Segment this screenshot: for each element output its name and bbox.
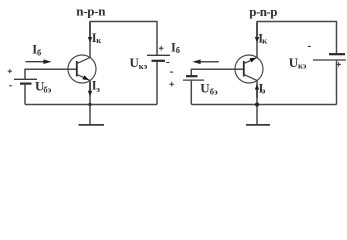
svg-text:n-p-n: n-p-n	[76, 4, 106, 19]
label Iк (left)	[92, 31, 101, 45]
ground (left) stub	[89, 105, 91, 125]
ground (right) bar	[246, 124, 270, 126]
arrow Iб (right, left-pointing)	[192, 60, 218, 65]
label - (right battery U_бэ)	[170, 71, 173, 73]
wire: right emitter vertical	[256, 81, 258, 105]
wire: left battery branch upper	[24, 69, 26, 79]
label Iк (right)	[258, 31, 267, 45]
wire: right top rail	[257, 21, 337, 23]
transistor Q1 (n-p-n)	[68, 55, 96, 83]
wire: right base wire	[191, 68, 243, 70]
label - (left battery U_бэ)	[9, 85, 12, 87]
svg-text:к: к	[262, 36, 267, 46]
arrow Iк (left, down)	[88, 23, 92, 43]
battery GB1 U_бэ long plate	[14, 78, 37, 80]
wire: left base wire	[25, 68, 76, 70]
arrow Iэ (left, down)	[88, 82, 92, 97]
svg-text:к: к	[96, 35, 101, 45]
wire: right right-battery branch upper	[336, 21, 338, 54]
wire: left right-battery branch lower	[156, 62, 158, 105]
wire: right battery branch upper	[190, 69, 192, 76]
svg-text:бэ: бэ	[210, 87, 218, 97]
battery GB3 U_бэ long plate	[183, 79, 204, 81]
label U_кэ (left)	[130, 55, 148, 71]
label + (left battery U_бэ)	[8, 69, 12, 73]
label Iэ (left)	[92, 79, 101, 95]
label U_бэ (right)	[200, 81, 218, 97]
svg-text:p-n-p: p-n-p	[249, 4, 277, 19]
wire: right battery branch lower	[190, 81, 192, 105]
battery GB3 U_бэ short plate	[186, 75, 198, 77]
battery GB1 U_бэ short plate	[20, 82, 32, 84]
wire: left collector vertical	[89, 21, 91, 58]
wire: left top rail	[90, 21, 157, 23]
svg-text:кэ: кэ	[139, 61, 148, 71]
battery GB4 U_кэ long plate	[313, 59, 346, 61]
svg-text:б: б	[176, 45, 180, 55]
label Iб (left)	[32, 42, 41, 57]
svg-text:э: э	[96, 84, 100, 94]
ground (right) stub	[256, 105, 258, 125]
arrow Iэ (right, up)	[255, 84, 259, 98]
label - (right battery U_кэ)	[308, 45, 311, 47]
label n-p-n	[76, 4, 106, 19]
label - (left battery U_кэ)	[166, 62, 169, 64]
arrow Iк (right, down)	[255, 23, 259, 43]
ground (left) bar	[79, 124, 105, 126]
wire: left bottom rail	[25, 104, 157, 106]
label p-n-p	[249, 4, 277, 19]
svg-text:бэ: бэ	[43, 85, 51, 95]
arrow Iб (left, right-pointing)	[26, 59, 52, 64]
label Iэ (right)	[259, 82, 266, 96]
svg-text:U: U	[200, 81, 210, 96]
wire: right right-battery branch lower	[336, 61, 338, 105]
junction node (left emitter/rail)	[88, 103, 91, 106]
wire: left emitter vertical	[89, 81, 91, 105]
svg-text:б: б	[37, 47, 41, 57]
label U_бэ (left)	[35, 79, 52, 95]
label + (left battery U_кэ)	[159, 46, 164, 51]
label U_кэ (right)	[289, 55, 307, 70]
svg-text:кэ: кэ	[298, 60, 307, 70]
label + (right battery U_бэ)	[169, 82, 174, 87]
battery GB4 U_кэ short plate	[329, 53, 345, 55]
label + (right battery U_кэ)	[336, 62, 341, 67]
wire: left right-battery branch upper	[156, 21, 158, 55]
wire: right bottom rail	[191, 104, 336, 106]
battery GB2 U_кэ short plate	[152, 60, 166, 62]
svg-text:э: э	[262, 86, 266, 96]
junction node (right emitter/rail)	[255, 103, 259, 107]
transistor Q2 (p-n-p)	[235, 55, 263, 83]
wire: left battery branch lower	[24, 85, 26, 105]
label Iб (right)	[171, 40, 180, 55]
battery GB2 U_кэ long plate	[147, 54, 170, 56]
wire: right collector vertical	[256, 21, 258, 58]
